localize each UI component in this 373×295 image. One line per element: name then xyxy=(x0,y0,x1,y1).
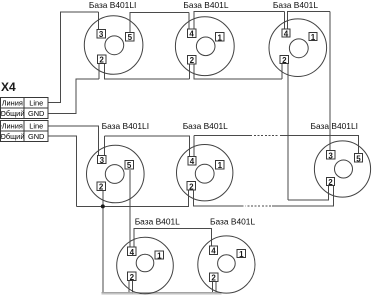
svg-text:5: 5 xyxy=(128,33,133,42)
svg-text:2: 2 xyxy=(190,56,195,65)
svg-text:База B401LI: База B401LI xyxy=(89,0,136,10)
svg-text:2: 2 xyxy=(189,182,194,191)
base B6 pin 2 xyxy=(326,177,334,187)
wire: base B2 pin 2 out along GND bus xyxy=(194,63,282,79)
wire: base B5 pin 2 out left to junction xyxy=(76,190,188,206)
svg-text:1: 1 xyxy=(217,33,222,42)
svg-text:База B401L: База B401L xyxy=(210,217,255,227)
wire: drop into base B2 pin 4 xyxy=(188,12,190,29)
wire: middle return bus solid segment right of gap xyxy=(194,134,252,136)
base B1 pin 3 xyxy=(97,30,105,40)
base B7 pin 4 xyxy=(128,247,136,257)
svg-text:2: 2 xyxy=(99,183,104,192)
svg-text:5: 5 xyxy=(356,154,361,163)
svg-text:4: 4 xyxy=(211,247,216,256)
svg-text:1: 1 xyxy=(157,252,162,261)
svg-text:1: 1 xyxy=(218,161,223,170)
svg-text:База B401LI: База B401LI xyxy=(311,121,358,131)
wire: up into base B1 pin 2 xyxy=(98,63,100,79)
detector base B5 (База B401L, middle-centre) xyxy=(177,145,233,201)
svg-text:База B401LI: База B401LI xyxy=(102,121,149,131)
svg-text:3: 3 xyxy=(328,151,333,160)
svg-text:Общий: Общий xyxy=(0,109,24,118)
wire stub: cropped lead left of X4 row 2 xyxy=(0,113,2,114)
base B2 pin 4 xyxy=(187,29,195,39)
detector base B3 (База B401L, top-right) xyxy=(269,19,327,77)
detector base B7 (База B401L, bottom-left) xyxy=(117,237,174,294)
svg-text:3: 3 xyxy=(100,156,105,165)
svg-text:1: 1 xyxy=(311,33,316,42)
svg-text:База B401L: База B401L xyxy=(183,121,228,131)
svg-text:5: 5 xyxy=(127,161,132,170)
wire: base B7 pin 4 out to base B8 pin 4 xyxy=(134,229,212,248)
svg-text:GND: GND xyxy=(28,109,44,118)
wire: into base B5 pin 4 (right side) xyxy=(193,135,195,156)
base B8 pin 2 xyxy=(209,273,217,283)
base B5 pin 2 xyxy=(187,182,195,192)
detector base B8 (База B401L, bottom-right) xyxy=(198,236,255,293)
wire: grey bottom GND bus (cropped) xyxy=(102,292,222,294)
base B5 pin 1 xyxy=(216,160,224,170)
base B3 pin 4 xyxy=(282,29,290,39)
detector base B2 (База B401L, top-middle) xyxy=(175,17,234,76)
wire: junction up into base B4 pin 2 xyxy=(102,191,104,207)
base B2 pin 1 xyxy=(216,33,224,43)
wire: base B3 pin 2 down the middle riser xyxy=(287,63,289,199)
base B3 pin 1 xyxy=(309,32,317,42)
svg-text:GND: GND xyxy=(28,132,44,141)
wire: middle return bus dotted continuation xyxy=(254,134,279,136)
base B4 pin 5 xyxy=(125,160,133,170)
svg-text:2: 2 xyxy=(282,56,287,65)
wire: GND return solid to base B5 pin 2 xyxy=(194,190,244,206)
base B3 pin 2 xyxy=(280,55,288,65)
wire: GND return dotted continuation xyxy=(246,205,272,207)
junction node: GND tee below base B4 xyxy=(101,204,105,208)
base B2 pin 2 xyxy=(188,55,196,65)
wire: base B3 pin 4 out to right riser xyxy=(288,11,331,29)
svg-text:База B401L: База B401L xyxy=(135,217,180,227)
wire: drop into base B1 pin 3 xyxy=(97,12,99,30)
svg-text:4: 4 xyxy=(190,157,195,166)
base B6 pin 3 xyxy=(326,151,334,161)
wire: up into base B2 pin 2 xyxy=(188,63,190,79)
svg-text:Line: Line xyxy=(29,98,43,107)
wire: base B6 pin 5 up to middle return bus xyxy=(280,135,359,154)
svg-text:2: 2 xyxy=(99,56,104,65)
wire: GND return to X4 GND2 xyxy=(49,136,77,206)
base B6 pin 5 xyxy=(354,154,362,164)
base B1 pin 2 xyxy=(97,55,105,65)
svg-text:Общий: Общий xyxy=(0,132,24,141)
connector X4 terminal table (pair 1: Линия/Line, Общий/GND) xyxy=(1,97,49,118)
svg-text:База B401L: База B401L xyxy=(273,0,318,10)
base B7 pin 2 xyxy=(128,272,136,282)
detector base B1 (База B401LI, top-left) xyxy=(84,16,143,75)
wire: over to base B6 pin 2 xyxy=(288,186,329,200)
base B7 pin 1 xyxy=(155,251,163,261)
wire: base B8 pin 2 left leg to bottom bus xyxy=(212,282,214,293)
svg-text:База B401L: База B401L xyxy=(183,0,228,10)
base B8 pin 1 xyxy=(237,249,245,259)
wire: base B2 pin 4 out to base B3 xyxy=(194,12,285,29)
wire: base B6 pin 2 return bus start xyxy=(272,186,333,206)
wire: drop into base B4 pin 3 (right) xyxy=(104,136,106,156)
base B1 pin 5 xyxy=(126,33,134,43)
svg-text:Линия: Линия xyxy=(2,98,23,107)
wire: right riser down to base B6 pin 3 xyxy=(329,11,331,151)
wire: base B1 pin 5 up to top bus xyxy=(130,12,189,32)
wire: drop into base B3 pin 4 xyxy=(284,12,286,29)
wire: base B4 pin 5 down to base B7 pin 4 xyxy=(129,170,131,248)
base B5 pin 4 xyxy=(188,157,196,167)
wire: up into base B3 pin 2 xyxy=(281,63,283,79)
svg-text:4: 4 xyxy=(189,30,194,39)
svg-text:1: 1 xyxy=(239,250,244,259)
svg-text:2: 2 xyxy=(211,274,216,283)
wire: base B4 pin 3 return to X4 Line2 xyxy=(49,126,99,155)
base B4 pin 2 xyxy=(97,182,105,192)
wire stub: cropped lead left of X4 row 3 xyxy=(0,125,2,126)
svg-text:4: 4 xyxy=(130,248,135,257)
connector X4 terminal table (pair 2: Линия/Line, Общий/GND) xyxy=(1,121,49,142)
wire: base B7 pin 2 left leg to bottom bus xyxy=(128,281,130,292)
svg-text:3: 3 xyxy=(99,30,104,39)
wire: X4 GND1 output xyxy=(49,79,99,113)
wire: base B8 pin 2 right leg down (cut at edge) xyxy=(215,282,217,295)
svg-text:Линия: Линия xyxy=(2,122,23,131)
svg-text:Line: Line xyxy=(29,122,43,131)
wire: branch down from junction to bottom row xyxy=(102,206,104,292)
svg-text:2: 2 xyxy=(328,178,333,187)
wire: base B7 pin 2 right leg down (cut at edge) xyxy=(131,281,133,295)
wire: base B5 pin 4 out left to base B4 xyxy=(105,136,190,157)
wire: base B1 pin 2 out along GND bus xyxy=(105,63,190,79)
svg-text:4: 4 xyxy=(284,30,289,39)
svg-text:X4: X4 xyxy=(1,80,16,94)
detector base B4 (База B401LI, middle-left) xyxy=(87,145,145,203)
wire: X4 Line1 output to riser xyxy=(49,12,99,102)
base B8 pin 4 xyxy=(209,246,217,256)
svg-text:2: 2 xyxy=(130,273,135,282)
wire stub: cropped lead left of X4 row 4 xyxy=(0,136,2,137)
base B4 pin 3 xyxy=(98,155,106,165)
detector base B6 (База B401LI, middle-right) xyxy=(314,141,370,197)
